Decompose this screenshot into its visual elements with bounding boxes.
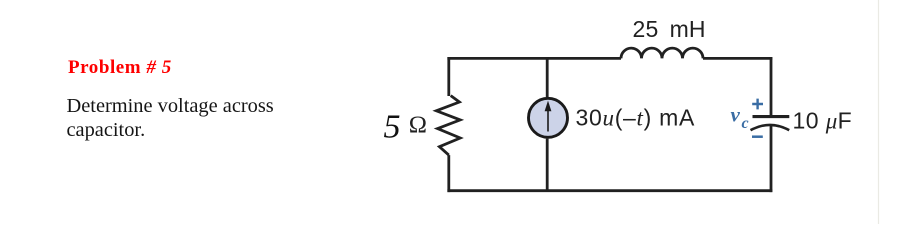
current source IS1 — [529, 98, 568, 137]
label 10 uF — [793, 108, 853, 134]
wire left upper stub — [447, 57, 450, 96]
wire middle upper — [546, 57, 549, 97]
wire left lower stub — [447, 155, 450, 192]
label 30u(-t) mA — [576, 104, 696, 130]
svg-text:Ω: Ω — [409, 111, 427, 138]
svg-text:v: v — [731, 103, 741, 127]
minus sign — [752, 135, 763, 138]
label 25 mH — [633, 16, 706, 42]
svg-text:5: 5 — [384, 108, 401, 145]
label 5 ohm — [384, 108, 428, 145]
caption line 1 — [67, 95, 274, 117]
svg-text:25 mH: 25 mH — [633, 16, 706, 42]
title Problem # 5 — [68, 57, 172, 78]
wire bottom — [447, 189, 772, 192]
faint divider line right — [878, 0, 880, 224]
inductor L1 25 mH — [621, 48, 703, 58]
plus sign — [752, 99, 763, 110]
svg-text:10 μF: 10 μF — [793, 108, 853, 134]
wire right upper — [770, 57, 773, 115]
wire right lower — [770, 126, 773, 192]
wire middle lower — [546, 139, 549, 191]
svg-text:Problem # 5: Problem # 5 — [68, 57, 172, 78]
wire top right segment — [703, 57, 772, 60]
capacitor C1 10 uF — [751, 117, 790, 131]
svg-text:capacitor.: capacitor. — [67, 119, 146, 141]
svg-text:30u(–t) mA: 30u(–t) mA — [576, 104, 696, 130]
resistor R1 5 ohm — [436, 96, 460, 156]
label vc — [731, 103, 749, 132]
current source arrow — [545, 101, 552, 132]
svg-text:Determine voltage across: Determine voltage across — [67, 95, 274, 117]
svg-text:c: c — [742, 115, 749, 132]
wire top — [447, 57, 621, 60]
caption line 2 — [67, 119, 146, 141]
